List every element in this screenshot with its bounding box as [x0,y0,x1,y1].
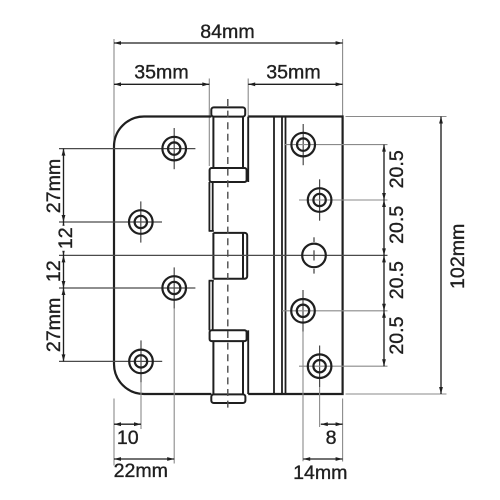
svg-text:20.5: 20.5 [386,316,408,354]
svg-text:35mm: 35mm [134,62,188,84]
hole R5 crosshair [319,346,321,388]
svg-text:8: 8 [326,427,337,449]
hole H4 [129,350,153,374]
dimension 22mm line [114,458,174,460]
extension line right bottom y394 [346,393,447,395]
middle knuckle body [213,233,247,279]
extension line barrel right x248.2 [247,79,249,117]
extension line barrel left x209.3 [208,79,210,167]
svg-text:84mm: 84mm [200,21,254,43]
hole R3 center mark [313,237,315,242]
middle knuckle left edge [212,233,214,279]
svg-text:12: 12 [55,227,77,249]
dimension 84mm line [114,42,343,44]
hole H3 [162,276,186,300]
svg-text:27mm: 27mm [43,159,65,213]
gap1 bottom joint [209,230,214,232]
svg-text:20.5: 20.5 [386,150,408,188]
bottom knuckle left edge [212,341,214,394]
gap2 left outer line [208,281,210,331]
hole R4 [291,299,315,323]
hole H1 crosshair [173,128,175,169]
dimension 102mm line [440,117,442,395]
svg-text:22mm: 22mm [114,460,168,482]
left leaf outline [114,117,211,395]
svg-text:102mm: 102mm [447,224,469,289]
svg-text:12: 12 [43,260,65,282]
barrel centerline [227,99,229,411]
gap1 left inner line [212,182,214,231]
band 1 [210,168,247,182]
hole H2 [129,210,153,234]
dimension 14mm line [303,458,342,460]
extension line bottom left x114 [113,399,115,466]
hole H2 crosshair [140,201,142,242]
hole R2 crosshair [319,179,321,220]
hole R5 [308,354,332,378]
top knuckle left edge [212,117,214,169]
barrel bottom cap [211,394,245,403]
top knuckle right edge [242,117,244,169]
svg-text:10: 10 [117,427,139,449]
dimension 35mm right line [248,83,342,85]
bottom knuckle right edge [242,341,244,394]
svg-text:35mm: 35mm [266,62,320,84]
right leaf groove line x282 [281,117,283,395]
right leaf left edge lower segment [247,330,249,394]
gap2 top joint [209,280,214,282]
hole H4 crosshair [140,340,142,382]
right leaf groove line x285.5 [285,117,287,395]
extension line top left x114 [113,39,115,147]
svg-text:14mm: 14mm [293,462,347,484]
dimension 35mm left line [114,83,209,85]
mid extension line y255.4 [59,254,388,256]
dimension 10 line [114,423,141,425]
hole H3 crosshair [173,267,175,308]
left chain dimension line [63,149,65,362]
hole R4 crosshair [302,290,304,332]
band 2 [210,330,247,341]
extension line top right x342.6 [342,39,344,116]
right chain dimension line [383,145,385,367]
hole H1 [162,137,186,161]
hole R2 [308,188,332,212]
svg-text:27mm: 27mm [43,298,65,352]
barrel top cap [211,107,245,116]
gap1 left outer line [208,182,210,231]
dimension 12 top text [58,226,73,251]
middle knuckle inner right line [242,233,244,279]
right leaf bend line x274 [273,117,275,395]
hole R3 [302,244,326,268]
right leaf outline [248,117,342,395]
svg-text:20.5: 20.5 [386,261,408,299]
right leaf left edge upper segment [247,117,249,183]
gap2 left inner line [212,281,214,331]
dimension 8 line [321,423,343,425]
hole R1 crosshair [302,124,304,165]
extension line bottom right x342.6 [342,399,344,462]
hole R1 [291,133,315,157]
svg-text:20.5: 20.5 [386,206,408,244]
extension line right top y116.5 [346,116,447,118]
